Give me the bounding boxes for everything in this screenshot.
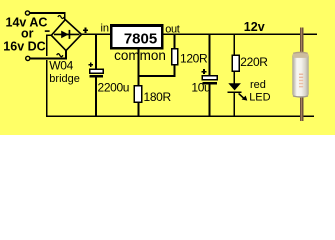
wire 10u top [208, 34, 210, 75]
wire negative output left stub [47, 35, 52, 56]
wire common lead upper [137, 49, 139, 86]
wire top AC input [30, 13, 65, 21]
diode D1 inside bridge [54, 30, 80, 39]
minus sign bridge [45, 30, 50, 32]
terminal bottom [26, 56, 30, 60]
wire bottom 0v rail [46, 115, 314, 117]
terminal top [25, 11, 29, 15]
photo resistor print marks [299, 74, 303, 76]
ac mark top [58, 16, 64, 19]
photo resistor lead [300, 28, 303, 122]
LED D2 triangle [228, 83, 241, 90]
svg-text:12v: 12v [244, 20, 265, 34]
svg-text:2200u: 2200u [98, 80, 130, 94]
svg-text:common: common [114, 48, 166, 63]
svg-text:220R: 220R [240, 55, 268, 69]
wire common lead lower [137, 102, 139, 116]
wire top positive rail [82, 33, 318, 35]
LED cathode bar [228, 91, 242, 93]
svg-text:180R: 180R [144, 90, 172, 104]
wire 2200u top [95, 34, 97, 69]
LED arrow [239, 93, 248, 100]
svg-text:red: red [250, 79, 266, 91]
svg-text:10u: 10u [191, 80, 210, 94]
wire 220R to LED [233, 71, 235, 83]
svg-text:in: in [100, 22, 109, 34]
wire 120R top [174, 34, 176, 49]
wire LED bottom [233, 93, 235, 116]
svg-text:out: out [165, 23, 180, 35]
wire 220R top [233, 34, 235, 55]
resistor R3 220R body [232, 55, 239, 71]
resistor R1 120R body [172, 49, 178, 65]
wire 120R bottom to common [138, 65, 174, 76]
plus sign 2200u [88, 62, 93, 67]
svg-text:W04: W04 [49, 59, 73, 73]
regulator U1 7805 box [111, 26, 162, 49]
wire bottom AC input [31, 51, 67, 59]
plus sign 10u [202, 69, 207, 74]
wire negative vertical lower [46, 60, 48, 116]
ac mark bottom [57, 54, 63, 57]
svg-text:bridge: bridge [49, 73, 80, 85]
svg-text:LED: LED [249, 91, 270, 103]
capacitor C1 2200u plates [90, 69, 103, 78]
svg-text:7805: 7805 [124, 30, 157, 47]
wire 10u bottom [208, 84, 210, 116]
svg-text:120R: 120R [180, 51, 208, 65]
resistor R2 180R body [134, 86, 141, 102]
capacitor C2 10u plates [202, 76, 217, 85]
bridge W04 diamond [51, 20, 81, 51]
svg-text:16v DC: 16v DC [3, 39, 45, 53]
wire 2200u bottom [95, 78, 97, 117]
plus sign bridge [83, 28, 88, 33]
